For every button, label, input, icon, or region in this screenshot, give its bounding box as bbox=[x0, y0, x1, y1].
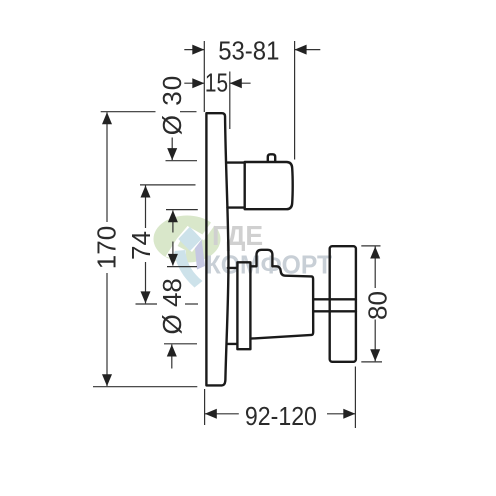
upper sleeve top edge bbox=[228, 161, 245, 163]
ext line horizontal valve bottom y=343.8 bbox=[164, 343, 197, 345]
watermark logo white slash cutout top-right bbox=[201, 221, 216, 240]
watermark logo green disc bbox=[154, 216, 221, 263]
dim 92-120 leader left bbox=[205, 413, 239, 415]
dim 170 line upper part bbox=[106, 112, 108, 222]
dim Ø30 arrow line bbox=[171, 138, 173, 161]
dim 92-120 leader right bbox=[327, 413, 355, 415]
arrow 170 top (points up) bbox=[102, 112, 112, 124]
valve body bbox=[251, 266, 313, 338]
dim 74 line upper part bbox=[145, 186, 147, 229]
svg-text:53-81: 53-81 bbox=[218, 36, 279, 65]
arrow 80 top (points up) bbox=[370, 247, 380, 259]
arrow 15 right (points left) bbox=[230, 78, 242, 88]
ext line vertical below plate x=204 bbox=[204, 389, 206, 425]
ext line horizontal bar top y=245.9 bbox=[361, 245, 380, 247]
arrow 92-120 left (points right) bbox=[205, 409, 217, 419]
svg-text:15: 15 bbox=[205, 68, 228, 97]
arrow Ø48 bottom (points up) bbox=[167, 345, 177, 357]
ext line vertical wall face x=204 bbox=[203, 41, 205, 112]
ext line horizontal top of stop box y=160.7 bbox=[166, 160, 198, 162]
stop box top tab bbox=[268, 154, 275, 161]
svg-text:170: 170 bbox=[91, 226, 121, 269]
dim 74 line lower part bbox=[145, 262, 147, 303]
arrow 92-120 right (points left) bbox=[343, 409, 355, 419]
handle spoke upper line bbox=[313, 298, 356, 300]
lower sleeve top edge bbox=[228, 267, 237, 269]
arrow 80 bottom (points down) bbox=[370, 349, 380, 361]
ext line horizontal top of valve body y=266.6 bbox=[167, 266, 197, 268]
ext line horizontal bottom of stop box y=209.6 bbox=[166, 209, 198, 211]
arrow stop-bottom (points up) bbox=[168, 210, 178, 222]
dim 170 line lower part bbox=[106, 273, 108, 386]
svg-text:92-120: 92-120 bbox=[245, 403, 317, 432]
ext line horizontal top of plate y=111.7 bbox=[101, 111, 156, 113]
dim 80 line lower part bbox=[374, 320, 376, 362]
arrow 74 top (points up) bbox=[141, 186, 151, 198]
arrow 170 bottom (points down) bbox=[102, 374, 112, 386]
arrow body-top (points down) bbox=[168, 254, 178, 266]
watermark logo white cut below emblem bbox=[169, 244, 187, 259]
lower sleeve bottom edge bbox=[228, 343, 237, 345]
dim 15 leader left bbox=[184, 82, 204, 84]
ext line horizontal plate bottom y=386.7 bbox=[93, 386, 197, 388]
svg-text:80: 80 bbox=[362, 291, 392, 320]
watermark logo white mountain left slope band bbox=[166, 226, 192, 258]
dim 80 line upper part bbox=[374, 247, 376, 289]
handle cross bar bbox=[330, 246, 356, 362]
escutcheon plate bbox=[206, 113, 228, 385]
watermark logo lavender stripe bbox=[194, 235, 205, 270]
svg-text:74: 74 bbox=[126, 231, 156, 260]
svg-text:Ø 30: Ø 30 bbox=[157, 75, 187, 135]
svg-text:ГДЕ: ГДЕ bbox=[212, 219, 263, 251]
valve dome knob bbox=[257, 250, 273, 266]
arrow 74 bottom (points down) bbox=[141, 291, 151, 303]
thermostat stop box bbox=[245, 162, 293, 209]
dim line between stop bottom and body top bbox=[172, 211, 174, 233]
arrow 15 left (points right) bbox=[192, 78, 204, 88]
ext line horizontal valve axis y=304 bbox=[136, 303, 158, 305]
upper sleeve bottom edge bbox=[228, 206, 245, 208]
watermark logo white mountain right slope band bbox=[187, 226, 207, 241]
ext line vertical plate front x=229.8 bbox=[229, 72, 231, 130]
ext line vertical front of stop handle x=294.6 bbox=[294, 41, 296, 160]
ext line vertical handle front x=355.4 bbox=[354, 367, 356, 429]
watermark logo blue sail diamond bbox=[178, 227, 201, 251]
watermark logo cyan tail stripe bbox=[174, 250, 203, 288]
svg-text:КОМФОРТ: КОМФОРТ bbox=[206, 251, 333, 280]
dim 53-81 leader right bbox=[295, 49, 321, 51]
handle spoke lower line bbox=[313, 310, 356, 312]
svg-text:Ø 48: Ø 48 bbox=[157, 278, 187, 334]
watermark logo white gap along diamond lower-right edge bbox=[190, 237, 203, 252]
arrow Ø30 (points down) bbox=[167, 148, 177, 160]
arrow 53-81 left (points right) bbox=[192, 45, 204, 55]
dim Ø48 lower outside arrow line bbox=[171, 345, 173, 369]
valve flange bbox=[237, 262, 250, 349]
arrow 53-81 right (points left) bbox=[295, 45, 307, 55]
ext line horizontal stop axis y=184.9 bbox=[140, 184, 196, 186]
dim 15 leader right bbox=[230, 82, 251, 84]
ext line horizontal bar bottom y=361.9 bbox=[361, 361, 382, 363]
dim 53-81 leader left bbox=[184, 49, 204, 51]
